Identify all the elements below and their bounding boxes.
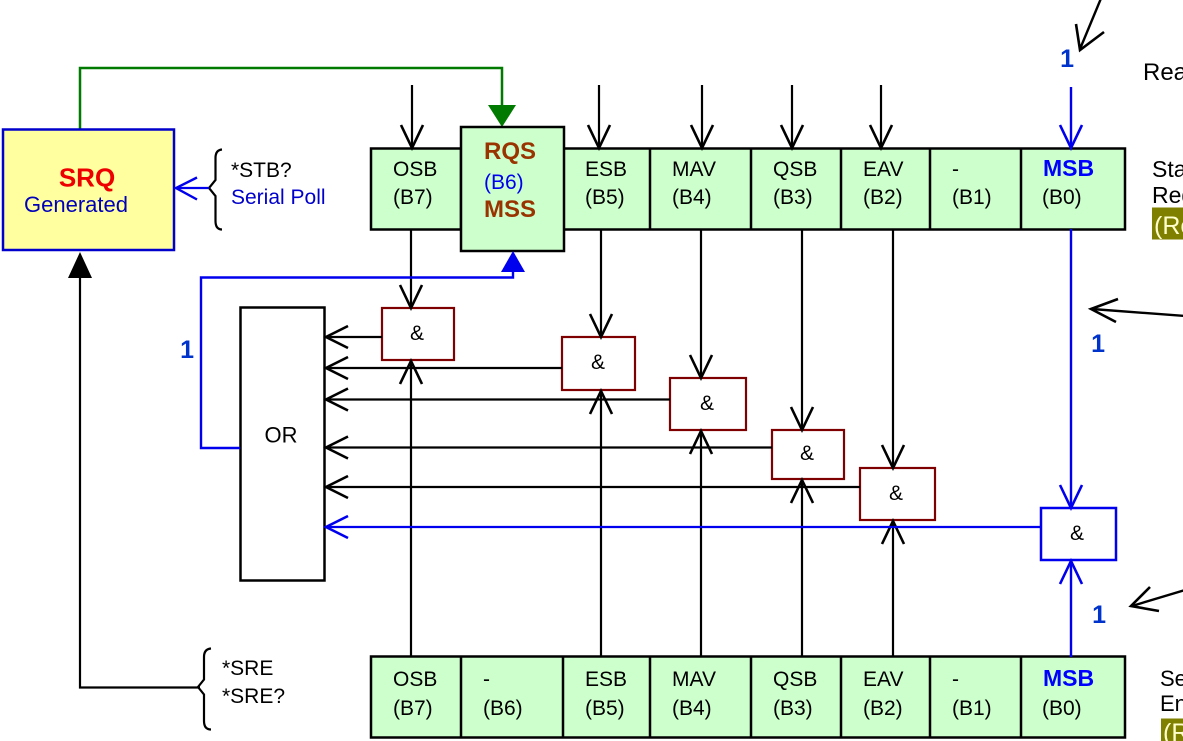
svg-text:(B4): (B4) xyxy=(672,186,712,209)
svg-text:QSB: QSB xyxy=(773,158,817,181)
svg-text:(B1): (B1) xyxy=(952,186,992,209)
wire: OR input 4 from U4 xyxy=(326,437,772,459)
svg-text:1: 1 xyxy=(180,336,194,364)
svg-text:OSB: OSB xyxy=(393,668,437,691)
svg-text:&: & xyxy=(889,482,903,505)
svg-text:(B0): (B0) xyxy=(1042,186,1082,209)
svg-text:Status Byte: Status Byte xyxy=(1152,156,1183,182)
wire: MSB status bit down to U6 (blue) xyxy=(1060,229,1082,508)
svg-text:Read by Serial Poll: Read by Serial Poll xyxy=(1143,59,1183,86)
svg-text:*SRE?: *SRE? xyxy=(222,685,285,708)
svg-text:(B5): (B5) xyxy=(585,697,625,720)
svg-text:*SRE: *SRE xyxy=(222,657,273,680)
cell - (B1) bottom xyxy=(952,668,992,720)
svg-text:ESB: ESB xyxy=(585,668,627,691)
AND gate U2 (ESB) xyxy=(562,337,635,390)
svg-text:Enable Register: Enable Register xyxy=(1160,691,1183,716)
svg-text:-: - xyxy=(952,668,959,691)
blue arrow from brace to SRQ right edge xyxy=(176,178,209,200)
svg-text:RQS: RQS xyxy=(484,138,536,165)
svg-text:&: & xyxy=(1070,522,1084,545)
arrow into EAV top xyxy=(870,85,892,148)
highlighted label (Read ... ) xyxy=(1152,208,1183,241)
annotation arrow top right xyxy=(1076,0,1104,50)
wire: EAV status bit down to U5 xyxy=(882,230,904,468)
svg-text:OR: OR xyxy=(265,423,298,448)
AND gate U5 (EAV) xyxy=(860,468,935,520)
svg-text:&: & xyxy=(800,442,814,465)
svg-text:(Read with *STB?): (Read with *STB?) xyxy=(1154,212,1183,240)
wire: ESB enable bit up to U2 xyxy=(590,391,612,656)
highlighted label (Read ...) bottom xyxy=(1161,719,1183,741)
svg-text:1: 1 xyxy=(1092,601,1106,629)
AND gate U3 (MAV) xyxy=(670,378,746,430)
svg-text:Generated: Generated xyxy=(24,192,128,217)
svg-text:MAV: MAV xyxy=(672,158,716,181)
cell MSB (B0) bottom xyxy=(1042,665,1094,720)
SRQ box xyxy=(3,130,174,251)
brace for *SRE / *SRE? xyxy=(198,649,211,730)
cell EAV (B2) bottom xyxy=(863,668,903,720)
svg-text:SRQ: SRQ xyxy=(59,163,115,193)
svg-text:MAV: MAV xyxy=(672,668,716,691)
cell - (B1) top xyxy=(952,158,992,209)
wire: MAV status bit down to U3 xyxy=(690,230,712,378)
svg-text:(B2): (B2) xyxy=(863,697,903,720)
svg-text:&: & xyxy=(700,392,714,415)
brace for *STB? / Serial Poll xyxy=(209,150,222,230)
svg-text:&: & xyxy=(410,322,424,345)
black arrowhead into SRQ bottom xyxy=(68,252,92,278)
svg-text:EAV: EAV xyxy=(863,668,903,691)
OR gate box xyxy=(241,308,325,581)
svg-text:OSB: OSB xyxy=(393,158,437,181)
svg-text:-: - xyxy=(483,668,490,691)
cell OSB (B7) bottom xyxy=(393,668,437,720)
svg-text:ESB: ESB xyxy=(585,158,627,181)
svg-text:(B6): (B6) xyxy=(483,697,523,720)
svg-text:(B7): (B7) xyxy=(393,697,433,720)
svg-text:(B2): (B2) xyxy=(863,186,903,209)
status byte register row xyxy=(371,149,1125,230)
annotation arrow bottom right xyxy=(1131,587,1183,611)
cell MAV (B4) top xyxy=(672,158,716,209)
svg-text:QSB: QSB xyxy=(773,668,817,691)
svg-text:(B6): (B6) xyxy=(484,171,524,194)
svg-text:Service Request: Service Request xyxy=(1160,666,1183,691)
arrow into MAV top xyxy=(691,85,713,148)
cell EAV (B2) top xyxy=(863,158,903,209)
svg-text:(B7): (B7) xyxy=(393,186,433,209)
AND gate U4 (QSB) xyxy=(772,430,844,479)
cell MSB (B0) top xyxy=(1042,155,1094,209)
svg-text:-: - xyxy=(952,158,959,181)
wire: OR input 5 from U5 xyxy=(326,476,860,498)
annotation arrow middle right xyxy=(1091,299,1183,322)
blue arrowhead into RQS bottom xyxy=(501,251,525,272)
cell QSB (B3) bottom xyxy=(773,668,817,720)
wire: OSB enable bit up to U1 xyxy=(400,361,422,656)
svg-text:(Read with *SRE?): (Read with *SRE?) xyxy=(1163,719,1183,741)
svg-text:*STB?: *STB? xyxy=(231,159,292,182)
wire: ESB status bit down to U2 xyxy=(590,230,612,337)
cell ESB (B5) top xyxy=(585,158,627,209)
svg-text:(B4): (B4) xyxy=(672,697,712,720)
wire: OSB status bit down to U1 xyxy=(400,230,422,308)
label Status Byte Register xyxy=(1152,156,1183,208)
svg-text:(B3): (B3) xyxy=(773,697,813,720)
svg-text:Register: Register xyxy=(1152,182,1183,208)
svg-text:1: 1 xyxy=(1091,330,1105,358)
wire: green feedback SRQ top to RQS top xyxy=(80,68,502,130)
wire: QSB status bit down to U4 xyxy=(791,230,813,430)
cell ESB (B5) bottom xyxy=(585,668,627,720)
wire: OR input 1 from U1 xyxy=(326,326,382,348)
cell MAV (B4) bottom xyxy=(672,668,716,720)
svg-text:(B5): (B5) xyxy=(585,186,625,209)
svg-text:MSS: MSS xyxy=(484,196,536,223)
svg-text:MSB: MSB xyxy=(1043,665,1094,691)
svg-text:1: 1 xyxy=(1060,45,1074,73)
wire: MSB enable bit up to U6 (blue) xyxy=(1060,561,1082,657)
label Service Request Enable Register xyxy=(1160,666,1183,716)
arrow into OSB top xyxy=(401,85,423,148)
arrow into QSB top xyxy=(781,85,803,148)
svg-text:Serial Poll: Serial Poll xyxy=(231,186,326,209)
wire: MAV enable bit up to U3 xyxy=(690,431,712,656)
wire: QSB enable bit up to U4 xyxy=(791,480,813,656)
svg-text:MSB: MSB xyxy=(1043,155,1094,181)
service request enable register row xyxy=(371,657,1125,738)
green arrowhead into RQS top xyxy=(488,105,516,127)
svg-text:(B0): (B0) xyxy=(1042,697,1082,720)
AND gate U6 (MSB, blue) xyxy=(1041,508,1116,560)
wire: blue MSS feedback from OR region to RQS bottom xyxy=(201,271,513,448)
wire: OR input 2 from U2 xyxy=(326,357,562,379)
wire: OR input 3 from U3 xyxy=(326,389,670,411)
wire: black from *SRE brace to SRQ bottom xyxy=(80,276,200,688)
wire: OR input 6 from U6 (blue) xyxy=(326,516,1041,538)
cell - (B6) bottom xyxy=(483,668,523,720)
wire: EAV enable bit up to U5 xyxy=(882,521,904,656)
svg-text:EAV: EAV xyxy=(863,158,903,181)
svg-text:(B1): (B1) xyxy=(952,697,992,720)
svg-text:(B3): (B3) xyxy=(773,186,813,209)
cell OSB (B7) top xyxy=(393,158,437,209)
AND gate U1 (OSB) xyxy=(382,308,454,360)
RQS / MSS box (B6) xyxy=(461,127,564,251)
svg-text:&: & xyxy=(591,351,605,374)
cell QSB (B3) top xyxy=(773,158,817,209)
arrow into ESB top xyxy=(588,85,610,148)
wire: blue 1 into MSB top xyxy=(1060,87,1082,148)
